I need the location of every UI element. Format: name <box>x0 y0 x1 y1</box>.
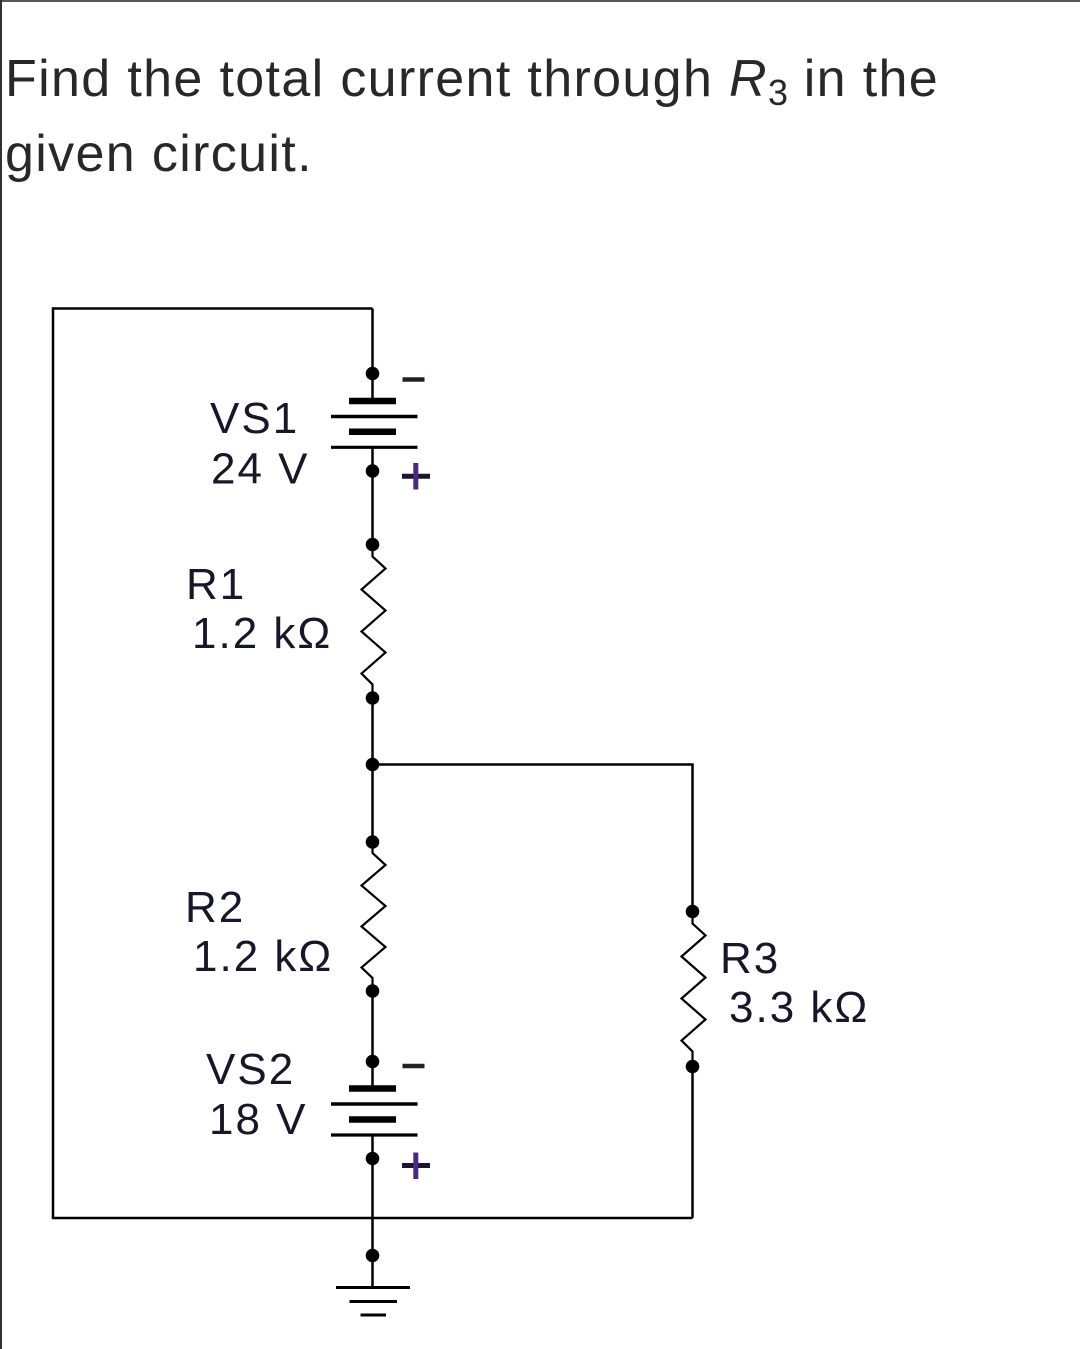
resistor R2 <box>362 842 386 991</box>
node VS2 pos terminal <box>366 1152 380 1166</box>
node R3 top <box>686 905 700 919</box>
wire VS2 to ground <box>371 1135 374 1255</box>
node A junction <box>366 758 380 772</box>
svg-text:1.2 kΩ: 1.2 kΩ <box>192 609 332 658</box>
svg-text:R3: R3 <box>720 934 780 983</box>
resistor R1 <box>362 545 386 699</box>
wire VS1 to R1 <box>371 447 374 544</box>
svg-text:VS2: VS2 <box>206 1045 295 1094</box>
label VS1 minus <box>403 377 425 382</box>
svg-text:R1: R1 <box>186 560 246 609</box>
resistor R3 <box>682 912 706 1067</box>
wire node A to R2 <box>371 765 374 843</box>
label VS1 plus <box>402 463 430 490</box>
wire top <box>53 307 373 310</box>
svg-text:1.2 kΩ: 1.2 kΩ <box>193 932 333 981</box>
node R2 bottom <box>366 984 380 998</box>
svg-text:18 V: 18 V <box>209 1095 308 1144</box>
svg-text:R2: R2 <box>185 883 245 932</box>
wire bottom <box>52 1217 693 1220</box>
wire VS1 neg stub <box>371 373 374 401</box>
wire R2 to VS2 <box>371 991 374 1062</box>
question text <box>5 44 939 189</box>
node R2 top <box>366 835 380 849</box>
node VS2 neg terminal <box>366 1055 380 1069</box>
top border <box>0 0 1080 2</box>
wire R3 to bottom wire <box>691 1067 694 1219</box>
node VS1 neg terminal <box>366 367 380 381</box>
wire node A to R3 branch <box>373 765 693 912</box>
wire VS2 neg stub <box>371 1062 374 1089</box>
svg-text:24 V: 24 V <box>211 445 310 494</box>
wire R1 to node A <box>371 698 374 765</box>
left border <box>0 0 2 1349</box>
battery VS2 <box>331 1089 418 1136</box>
label VS2 plus <box>402 1153 430 1180</box>
ground <box>336 1256 410 1316</box>
node R3 bottom <box>686 1060 700 1074</box>
svg-text:VS1: VS1 <box>210 394 299 443</box>
label VS2 minus <box>403 1064 425 1069</box>
wire left <box>52 307 55 1218</box>
battery VS1 <box>331 401 418 447</box>
svg-text:3.3 kΩ: 3.3 kΩ <box>729 983 869 1032</box>
node R1 top <box>366 538 380 552</box>
node ground junction <box>366 1249 380 1263</box>
node R1 bottom <box>366 691 380 705</box>
node VS1 pos terminal <box>366 464 380 478</box>
wire VS1 top lead <box>371 309 374 374</box>
